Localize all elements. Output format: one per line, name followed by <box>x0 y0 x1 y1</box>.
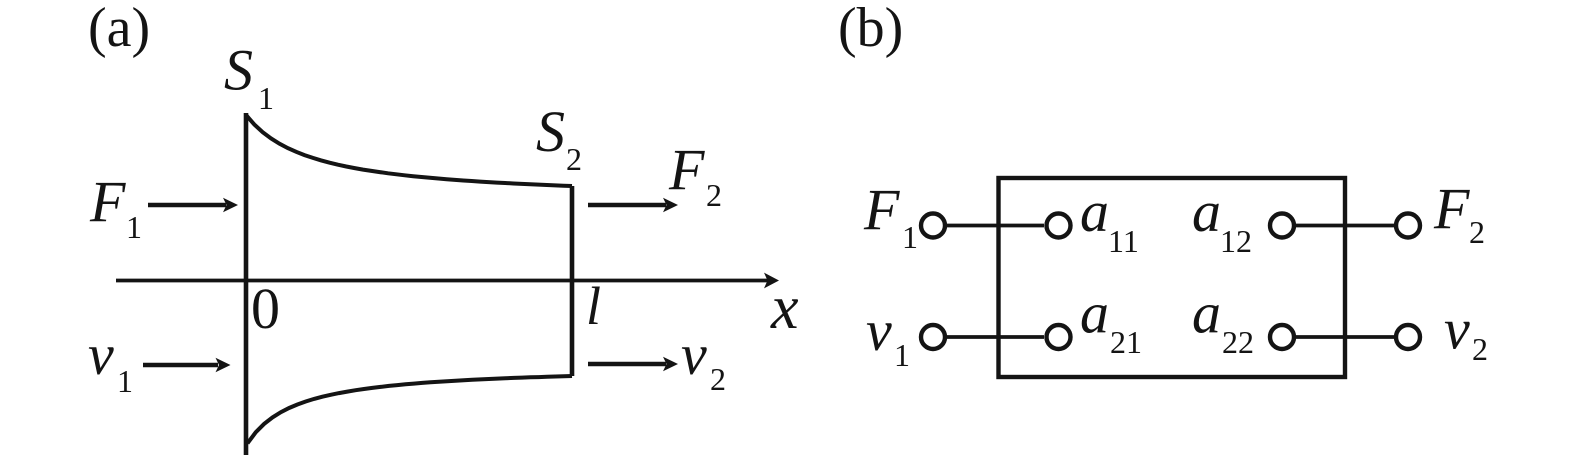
svg-text:21: 21 <box>1110 324 1142 360</box>
arrow F1 <box>148 203 226 208</box>
svg-text:a: a <box>1080 179 1109 244</box>
svg-text:1: 1 <box>902 219 918 255</box>
x axis arrowhead <box>764 273 779 289</box>
terminal circle v2 <box>1396 325 1420 349</box>
svg-text:l: l <box>586 276 601 336</box>
horn top profile curve <box>246 115 572 186</box>
svg-text:2: 2 <box>1469 214 1485 250</box>
horn left face line <box>244 113 249 455</box>
svg-text:v: v <box>681 322 707 387</box>
x axis line <box>116 279 768 283</box>
svg-text:1: 1 <box>126 209 142 245</box>
svg-text:12: 12 <box>1220 223 1252 259</box>
terminal circle a12 <box>1270 214 1294 238</box>
terminal circle F1 <box>921 214 945 238</box>
arrow F2 <box>588 203 666 208</box>
svg-text:22: 22 <box>1222 324 1254 360</box>
svg-text:(b): (b) <box>838 0 903 59</box>
svg-text:a: a <box>1080 281 1109 346</box>
terminal circle F2 <box>1396 214 1420 238</box>
svg-text:2: 2 <box>706 177 722 213</box>
svg-text:F: F <box>668 137 705 202</box>
svg-text:F: F <box>863 177 900 242</box>
svg-text:(a): (a) <box>88 0 150 59</box>
wire a12 to F2 <box>1294 224 1395 228</box>
svg-text:11: 11 <box>1108 223 1139 259</box>
terminal circle v1 <box>921 325 945 349</box>
arrow v1 <box>143 363 218 368</box>
arrow v2 <box>588 362 666 367</box>
terminal circle a21 <box>1047 325 1071 349</box>
two-port network box <box>999 178 1346 377</box>
svg-text:F: F <box>89 169 126 234</box>
svg-text:S: S <box>536 99 565 164</box>
wire F1 to a11 <box>946 224 1044 228</box>
svg-text:1: 1 <box>258 80 274 116</box>
svg-text:1: 1 <box>894 337 910 373</box>
svg-text:F: F <box>1433 176 1470 241</box>
terminal circle a11 <box>1047 214 1071 238</box>
terminal circle a22 <box>1270 325 1294 349</box>
svg-text:1: 1 <box>117 363 133 399</box>
wire v1 to a21 <box>946 335 1044 339</box>
svg-text:v: v <box>866 298 892 363</box>
svg-text:v: v <box>88 322 114 387</box>
svg-text:S: S <box>224 38 253 103</box>
horn bottom profile curve <box>248 376 573 443</box>
svg-text:2: 2 <box>1472 331 1488 367</box>
svg-text:2: 2 <box>566 141 582 177</box>
svg-text:x: x <box>770 274 799 342</box>
svg-text:a: a <box>1192 179 1221 244</box>
horn right face line <box>570 186 575 376</box>
svg-text:a: a <box>1192 281 1221 346</box>
svg-text:0: 0 <box>251 276 280 341</box>
svg-text:v: v <box>1444 297 1470 362</box>
svg-text:2: 2 <box>710 361 726 397</box>
wire a22 to v2 <box>1294 335 1395 339</box>
